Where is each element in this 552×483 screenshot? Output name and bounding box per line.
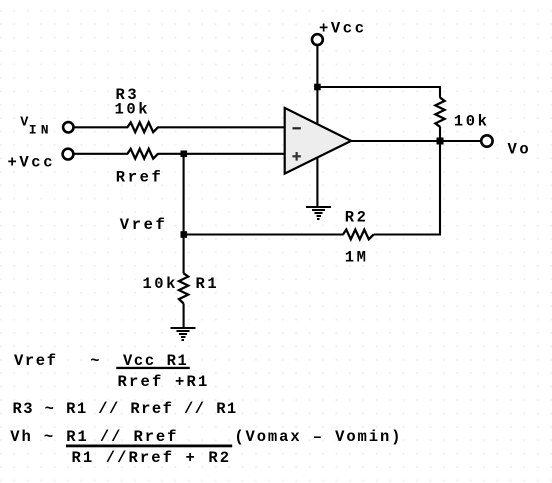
wire R1 top segment (183, 235, 185, 274)
wire +Vcc down through op-amp to ground (316, 45, 318, 208)
node junction dot on +Vcc rail (314, 84, 321, 91)
svg-text:Rref: Rref (116, 168, 164, 186)
fraction bar under Vcc R1 (116, 367, 190, 369)
terminal VIN circle (63, 122, 73, 132)
svg-text:10k: 10k (143, 275, 178, 293)
ground under R1 (171, 327, 196, 341)
node Vref junction dot on plus-input wire (181, 151, 188, 158)
svg-text:Vref: Vref (120, 216, 168, 234)
svg-text:1M: 1M (345, 249, 369, 267)
op-amp minus sign (293, 127, 301, 129)
wire V_IN to op-amp minus input (74, 126, 285, 128)
terminal +Vcc circle (top) (312, 34, 323, 45)
svg-text:10k: 10k (115, 100, 151, 118)
terminal +Vcc circle (left) (63, 149, 74, 160)
svg-text:R2: R2 (345, 209, 369, 227)
svg-text:Vo: Vo (508, 141, 532, 159)
ground under op-amp (306, 206, 331, 220)
wire R1 bottom segment (183, 304, 185, 328)
wire +Vcc rail to pull-up resistor (317, 87, 440, 98)
svg-text:IN: IN (29, 122, 53, 137)
resistor R1 zigzag (179, 273, 188, 303)
wire op-amp output (351, 140, 481, 142)
resistor R3 zigzag (127, 122, 158, 132)
wire +Vcc to op-amp plus input (74, 153, 285, 155)
resistor 10k pull-up zigzag (435, 98, 444, 127)
svg-text:10k: 10k (454, 113, 490, 131)
resistor Rref zigzag (127, 149, 158, 159)
fraction bar under R1 // Rref (66, 445, 232, 448)
terminal Vo circle (481, 135, 492, 146)
op-amp U1 triangle (285, 108, 351, 174)
svg-text:Vh ~ R1 // Rref (Vomax – V: Vh ~ R1 // Rref (Vomax – Vomin) (10, 428, 402, 446)
node Vref junction dot at R2 branch (181, 231, 188, 238)
node output junction dot (437, 138, 444, 145)
svg-text:Rref +R1: Rref +R1 (118, 373, 210, 391)
svg-text:+Vcc: +Vcc (8, 154, 56, 172)
wire Vref vertical (183, 154, 185, 235)
svg-text:R1 //Rref + R2: R1 //Rref + R2 (72, 449, 232, 467)
svg-text:+Vcc: +Vcc (319, 19, 367, 37)
resistor R2 zigzag (343, 230, 374, 240)
svg-text:R3 ~ R1 // Rref // R1: R3 ~ R1 // Rref // R1 (13, 400, 238, 418)
wire pull-up to output node (439, 127, 441, 142)
op-amp plus sign (292, 152, 301, 161)
wire R2 to output node corner (374, 141, 440, 235)
wire Vref to R2 (184, 233, 344, 235)
svg-text:R1: R1 (196, 275, 220, 293)
